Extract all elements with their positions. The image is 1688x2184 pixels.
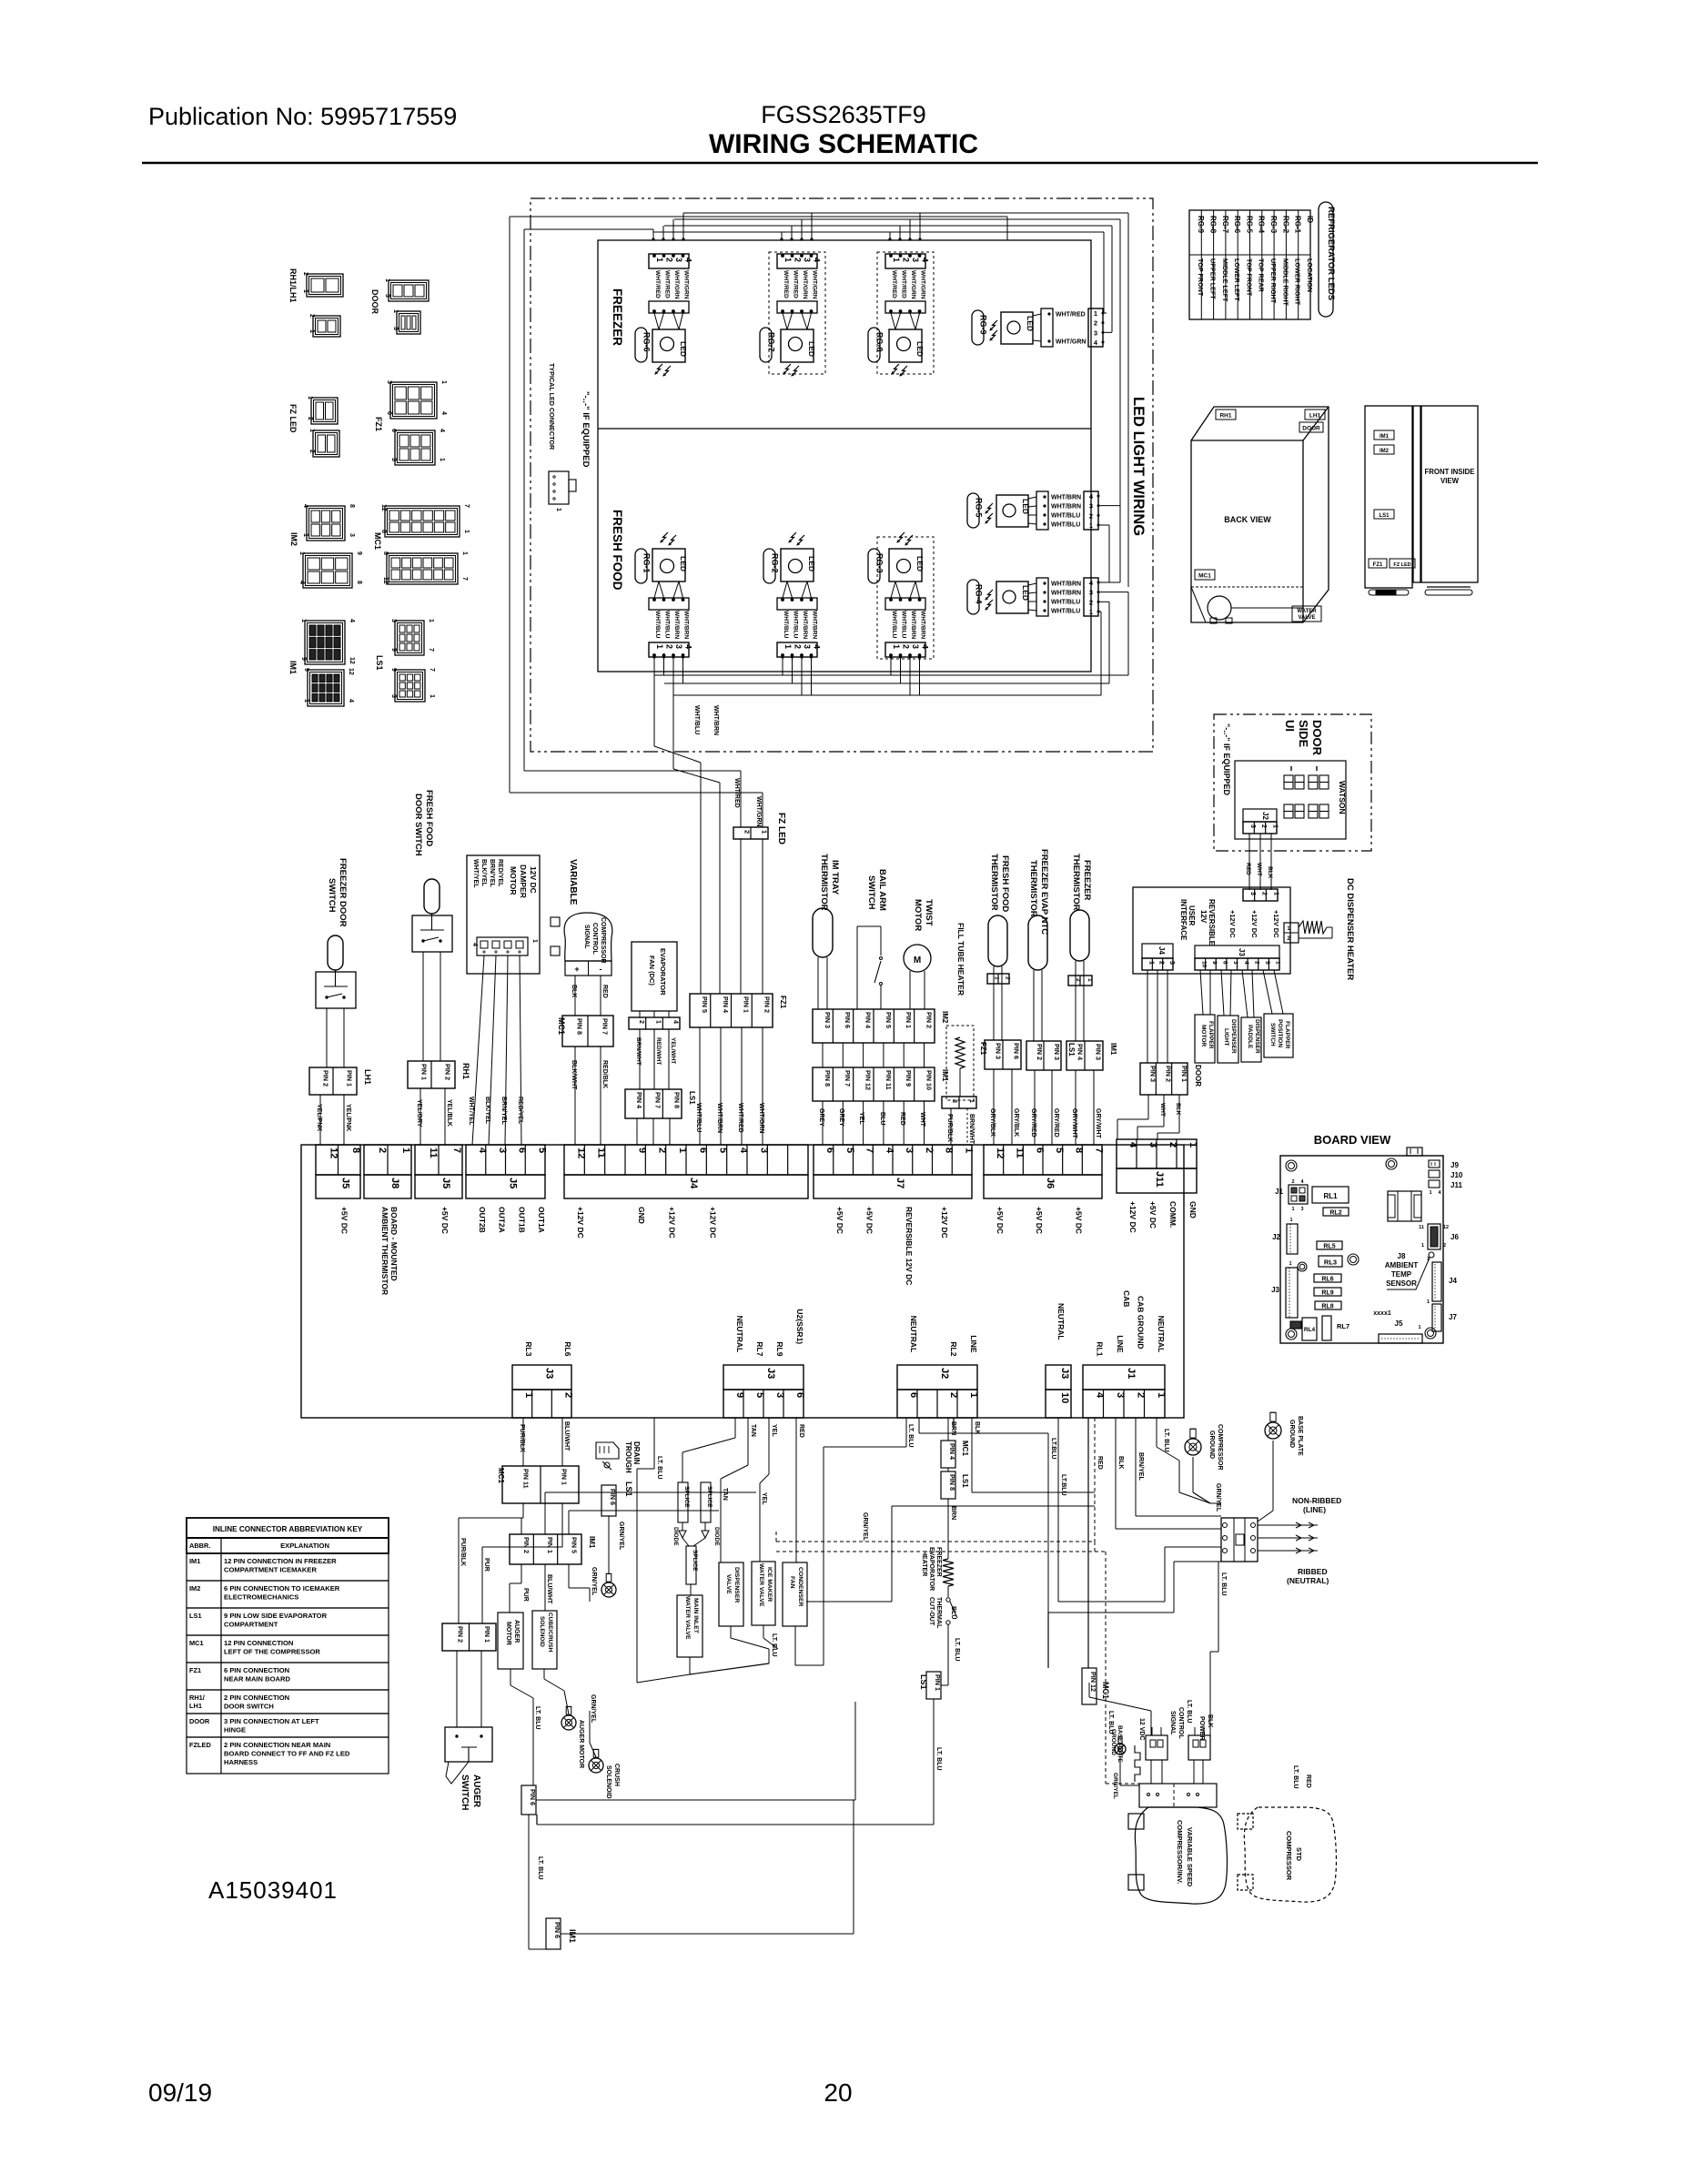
wire j3-10 ltblu: [1057, 1418, 1059, 1602]
svg-text:WHT/GRN: WHT/GRN: [1056, 339, 1086, 346]
connector MC1 pin8 pin7: [562, 1016, 613, 1046]
svg-text:COMPRESSOR: COMPRESSOR: [600, 917, 606, 964]
svg-text:RG-7: RG-7: [767, 332, 776, 352]
svg-text:2: 2: [665, 644, 674, 649]
svg-text:FREEZER EVAP NTC: FREEZER EVAP NTC: [1039, 849, 1049, 935]
svg-text:GRY/BLK: GRY/BLK: [989, 1108, 996, 1137]
svg-text:3: 3: [1168, 961, 1175, 965]
svg-text:ICE MAKER: ICE MAKER: [766, 1567, 773, 1602]
connector J4 label: [564, 1175, 808, 1198]
dashed wires to std compressor: [776, 1541, 1095, 1542]
wire grn/yel from pin5: [568, 1564, 570, 1588]
FZ LED connector: [733, 827, 768, 839]
svg-text:WHT/RED: WHT/RED: [664, 270, 671, 298]
svg-text:+12V DC: +12V DC: [708, 1207, 717, 1239]
svg-text:LED: LED: [915, 556, 925, 571]
svg-text:+5V DC: +5V DC: [996, 1207, 1005, 1234]
svg-text:6: 6: [1034, 1148, 1045, 1153]
LED module RG-6 pin connector: [649, 254, 689, 268]
refrigerator leds table: [1189, 210, 1310, 319]
svg-text:J3: J3: [1059, 1368, 1070, 1379]
connector MC1 PIN 12: [1082, 1668, 1097, 1704]
LED module RG-2 zaps: [789, 532, 796, 542]
svg-text:5: 5: [1264, 961, 1270, 965]
svg-text:OUT2B: OUT2B: [478, 1207, 487, 1233]
LED module RG-3 zaps: [897, 532, 905, 542]
wire down to pin6 bottom: [528, 1815, 530, 1929]
svg-text:SIGNAL: SIGNAL: [583, 925, 590, 949]
svg-text:LT.BLU: LT.BLU: [1060, 1474, 1066, 1496]
svg-text:PIN 3: PIN 3: [995, 1043, 1003, 1059]
svg-text:RED: RED: [899, 1112, 905, 1126]
svg-text:J2: J2: [1272, 1233, 1280, 1241]
svg-text:1: 1: [461, 551, 468, 555]
connector PIN 6 IM1 bottom: [546, 1918, 561, 1949]
svg-text:RL1: RL1: [1323, 1192, 1338, 1200]
svg-text:RL2: RL2: [949, 1341, 958, 1356]
board RL4: [1302, 1318, 1317, 1340]
svg-text:8: 8: [1074, 1148, 1085, 1153]
svg-text:PUR: PUR: [522, 1588, 529, 1602]
svg-text:GRY/RED: GRY/RED: [1053, 1108, 1059, 1137]
svg-text:8: 8: [382, 551, 389, 555]
svg-text:2: 2: [377, 1148, 388, 1153]
connector J8 label: [364, 1175, 411, 1198]
svg-text:RL2: RL2: [1329, 1210, 1341, 1217]
svg-text:J9: J9: [1450, 1161, 1459, 1169]
auger motor box: [498, 1613, 523, 1669]
svg-text:12: 12: [328, 1148, 339, 1158]
LED module RG-8 zaps: [892, 364, 899, 374]
svg-text:3: 3: [803, 644, 812, 649]
svg-text:7: 7: [429, 668, 435, 672]
LED module RG-4 LED box: [996, 581, 1028, 613]
svg-text:4: 4: [921, 258, 930, 262]
diode symbols: [679, 1522, 686, 1538]
connector IM2 view A: [307, 506, 345, 541]
svg-text:IM1: IM1: [189, 1557, 200, 1565]
door side ui dash-dot box: [1214, 714, 1371, 851]
svg-text:WHT/BRN: WHT/BRN: [683, 611, 690, 639]
svg-text:1: 1: [308, 329, 315, 333]
fresh food door switch: [424, 879, 440, 914]
typical led connector symbol: [549, 471, 569, 504]
connector MC1 view B: [387, 553, 458, 584]
svg-text:GND: GND: [637, 1207, 646, 1224]
LED module RG-5 strip: [1036, 491, 1048, 530]
svg-text:BLU/WHT: BLU/WHT: [546, 1574, 552, 1604]
wire rg4 pins: [1098, 581, 1120, 583]
svg-text:WATER VALVE: WATER VALVE: [684, 1596, 691, 1640]
svg-text:RG-9: RG-9: [1197, 216, 1205, 234]
svg-text:LS1: LS1: [189, 1612, 202, 1620]
svg-text:6: 6: [824, 1148, 835, 1153]
svg-text:4: 4: [440, 411, 447, 415]
svg-text:4: 4: [1438, 1190, 1441, 1196]
svg-text:"-..-" IF EQUIPPED: "-..-" IF EQUIPPED: [581, 391, 591, 468]
solenoid wire down: [543, 1669, 545, 1679]
svg-text:DISPENSER: DISPENSER: [733, 1567, 740, 1603]
LED module RG-9 pin box: [1088, 308, 1103, 347]
svg-text:NEUTRAL: NEUTRAL: [1157, 1316, 1166, 1353]
svg-text:+: +: [574, 965, 579, 974]
svg-text:2: 2: [1261, 892, 1268, 895]
svg-text:PIN 6: PIN 6: [609, 1489, 617, 1505]
svg-text:PIN 2: PIN 2: [925, 1012, 934, 1028]
svg-text:USER: USER: [1188, 905, 1196, 925]
svg-text:LED: LED: [1026, 316, 1035, 331]
svg-text:MIDDLE LEFT: MIDDLE LEFT: [1221, 258, 1229, 302]
svg-text:MOTOR: MOTOR: [505, 1622, 511, 1645]
svg-text:6: 6: [390, 429, 397, 432]
svg-text:YEL/WHT: YEL/WHT: [670, 1037, 676, 1064]
board RL3: [1319, 1256, 1342, 1267]
flapper position switch box: [1264, 1014, 1293, 1057]
svg-text:BRN/YEL: BRN/YEL: [489, 859, 495, 887]
svg-text:LH1: LH1: [363, 1069, 372, 1085]
svg-text:DOOR SWITCH: DOOR SWITCH: [413, 794, 423, 856]
svg-text:IM2: IM2: [1380, 449, 1390, 454]
bail arm switch symbol: [856, 926, 858, 1009]
svg-text:BLK: BLK: [974, 1421, 980, 1434]
svg-text:PUR/BLK: PUR/BLK: [946, 1114, 953, 1142]
svg-text:J7: J7: [1449, 1313, 1457, 1321]
svg-text:PIN 3: PIN 3: [1053, 1044, 1061, 1060]
svg-text:DOOR: DOOR: [1194, 1065, 1202, 1087]
svg-text:xxxx1: xxxx1: [1373, 1310, 1391, 1317]
svg-text:NON-RIBBED: NON-RIBBED: [1292, 1496, 1341, 1505]
svg-text:1: 1: [1275, 961, 1281, 965]
svg-text:+12V DC: +12V DC: [1228, 910, 1237, 938]
freezer door switch wires: [326, 1008, 328, 1067]
svg-text:1: 1: [1087, 978, 1093, 982]
svg-text:BLK: BLK: [1207, 1714, 1213, 1727]
bottom long wire: [561, 1933, 854, 1935]
svg-text:WHT/GRN: WHT/GRN: [758, 1103, 764, 1133]
svg-text:DRAIN: DRAIN: [632, 1441, 641, 1465]
svg-text:J7: J7: [895, 1178, 905, 1188]
svg-text:3: 3: [803, 258, 812, 262]
svg-text:RG-4: RG-4: [975, 584, 984, 604]
svg-text:1: 1: [1094, 309, 1097, 318]
svg-text:GRN/YEL: GRN/YEL: [1112, 1773, 1118, 1799]
svg-text:3: 3: [951, 1099, 957, 1103]
svg-text:1: 1: [968, 1099, 975, 1103]
svg-text:YEL: YEL: [858, 1112, 864, 1125]
wire runs below dashed box: [524, 770, 741, 772]
svg-text:FZ1: FZ1: [374, 417, 383, 431]
svg-text:3: 3: [1115, 1392, 1126, 1398]
svg-text:WHT/BLU: WHT/BLU: [693, 705, 700, 734]
inline connector abbreviation key table: [187, 1518, 389, 1538]
svg-text:9: 9: [356, 551, 362, 555]
svg-text:LED: LED: [915, 341, 925, 357]
svg-text:PIN 4: PIN 4: [864, 1012, 873, 1028]
svg-text:LT.BLU: LT.BLU: [1050, 1438, 1056, 1460]
svg-text:1: 1: [655, 644, 664, 649]
back view WATER VALVE tag: [1292, 606, 1321, 622]
svg-text:RED: RED: [1245, 863, 1251, 875]
board J6: [1428, 1224, 1440, 1249]
connector J5 pins: [316, 1145, 360, 1175]
LED module RG-8 strip: [885, 301, 925, 313]
svg-text:PIN 1: PIN 1: [743, 996, 751, 1013]
svg-text:REVERSIBLE: REVERSIBLE: [1208, 899, 1216, 946]
wire blk j2: [971, 1418, 973, 1492]
svg-text:3: 3: [674, 644, 683, 649]
svg-text:LT. BLU: LT. BLU: [1163, 1429, 1169, 1452]
svg-text:CUBE/CRUSH: CUBE/CRUSH: [547, 1613, 553, 1653]
back view dashed divider: [1191, 586, 1303, 588]
svg-text:WHT/BRN: WHT/BRN: [812, 611, 818, 639]
svg-text:WHT/RED: WHT/RED: [1056, 312, 1086, 318]
svg-text:PIN 1: PIN 1: [483, 1626, 491, 1643]
svg-text:3: 3: [1232, 961, 1238, 965]
svg-text:+12V DC: +12V DC: [940, 1207, 949, 1239]
board RL7: [1322, 1316, 1331, 1340]
svg-text:EVAPORATOR: EVAPORATOR: [928, 1547, 935, 1591]
svg-text:GRY/BLK: GRY/BLK: [1013, 1108, 1019, 1137]
svg-text:9 PIN LOW SIDE EVAPORATOR: 9 PIN LOW SIDE EVAPORATOR: [224, 1612, 328, 1620]
drain wire grn/yel: [608, 1516, 610, 1574]
svg-text:1: 1: [440, 380, 447, 384]
svg-text:IM TRAY: IM TRAY: [830, 860, 840, 895]
svg-text:MC1: MC1: [189, 1639, 204, 1647]
svg-text:RED/YEL: RED/YEL: [497, 859, 503, 887]
svg-text:2: 2: [562, 1392, 573, 1398]
board top connector: [1407, 1148, 1422, 1156]
svg-text:UPPER LEFT: UPPER LEFT: [1208, 258, 1217, 299]
variable speed compressor blob: [1135, 1807, 1227, 1904]
svg-text:HARNESS: HARNESS: [224, 1758, 258, 1766]
svg-text:IM2: IM2: [189, 1584, 200, 1592]
svg-text:SPLICE: SPLICE: [692, 1550, 698, 1572]
svg-text:1: 1: [303, 699, 309, 703]
connector RH1/LH1 view A: [307, 274, 343, 297]
svg-text:3: 3: [1089, 589, 1093, 597]
svg-text:FGSS2635TF9: FGSS2635TF9: [761, 101, 926, 128]
svg-text:WHT/BLU: WHT/BLU: [901, 611, 907, 639]
svg-text:RED/YEL: RED/YEL: [517, 1097, 523, 1125]
connector MC1 view A: [385, 506, 460, 537]
svg-text:6: 6: [1222, 961, 1228, 965]
compressor control signal blob: [564, 913, 612, 961]
evap fan pin row: [629, 1017, 680, 1029]
svg-text:J10: J10: [1450, 1171, 1463, 1179]
svg-text:+12V DC: +12V DC: [1128, 1201, 1137, 1233]
svg-text:SWITCH: SWITCH: [1269, 1023, 1276, 1046]
svg-text:1: 1: [400, 1148, 411, 1153]
svg-text:4: 4: [813, 258, 822, 262]
svg-text:RED: RED: [798, 1424, 804, 1438]
LED module RG-7 wires to LED: [783, 313, 787, 329]
ui top connector 3-2-1: [1243, 889, 1278, 901]
svg-text:8: 8: [349, 504, 355, 508]
svg-text:GRY/WHT: GRY/WHT: [1071, 1108, 1077, 1139]
svg-text:BLK/YEL: BLK/YEL: [480, 859, 487, 887]
svg-text:NEAR MAIN BOARD: NEAR MAIN BOARD: [224, 1675, 290, 1683]
svg-text:LED: LED: [679, 556, 688, 571]
svg-text:LOWER RIGHT: LOWER RIGHT: [1294, 258, 1302, 306]
svg-text:12: 12: [575, 1148, 586, 1158]
wire labels YEL/GRY YEL/BLK: [419, 1088, 421, 1145]
wire J3a pur/blk: [522, 1418, 524, 1466]
svg-text:-: -: [600, 965, 602, 974]
svg-text:REVERSIBLE 12V DC: REVERSIBLE 12V DC: [905, 1207, 914, 1285]
connector auger pin2 pin1: [442, 1623, 496, 1651]
svg-text:CONDENSER: CONDENSER: [797, 1567, 804, 1607]
svg-text:BLK: BLK: [1267, 866, 1273, 879]
svg-text:FREEZER: FREEZER: [611, 288, 624, 346]
svg-text:POWER: POWER: [1198, 1716, 1205, 1740]
svg-text:PIN 6: PIN 6: [844, 1012, 852, 1028]
back view DOOR tag: [1299, 422, 1323, 432]
svg-text:FREEZER: FREEZER: [1082, 860, 1092, 900]
svg-text:1: 1: [963, 1148, 974, 1153]
wire j1 red dashed: [1094, 1418, 1096, 1542]
svg-text:RL3: RL3: [524, 1341, 533, 1356]
base plate ground small: [1115, 1744, 1126, 1754]
svg-text:12 PIN CONNECTION IN FREEZER: 12 PIN CONNECTION IN FREEZER: [224, 1557, 337, 1565]
svg-text:LOCATION: LOCATION: [1306, 258, 1314, 292]
svg-text:1: 1: [302, 533, 308, 537]
svg-text:4: 4: [439, 429, 445, 432]
dispenser paddle box: [1241, 1017, 1261, 1062]
connector LS1 pin4 pin7 pin8: [625, 1089, 682, 1118]
connector IM1 view B: [308, 670, 344, 706]
svg-text:6: 6: [697, 1148, 708, 1153]
svg-text:OUT1B: OUT1B: [517, 1207, 526, 1233]
condenser fan wires: [794, 1626, 796, 1665]
connector DOOR view B: [397, 311, 420, 334]
svg-text:WHT/RED: WHT/RED: [793, 270, 799, 298]
connector J2 label: [897, 1365, 977, 1390]
wire j1 neutral ltblu: [1156, 1418, 1157, 1447]
svg-text:SOLENOID: SOLENOID: [605, 1765, 612, 1799]
svg-text:RED/BLK: RED/BLK: [601, 1060, 608, 1088]
svg-text:LED: LED: [679, 341, 688, 357]
LED module RG-7 pin connector: [777, 254, 817, 268]
svg-text:1: 1: [1418, 1325, 1420, 1330]
svg-text:WHT/YEL: WHT/YEL: [472, 859, 479, 888]
svg-text:PIN 1: PIN 1: [1180, 1066, 1188, 1082]
LED module RG-1 zaps: [661, 532, 668, 542]
brn ls1 wire: [953, 1418, 955, 1429]
svg-text:3: 3: [774, 1392, 785, 1398]
svg-text:RL4: RL4: [1304, 1327, 1316, 1333]
svg-text:LT. BLU: LT. BLU: [534, 1706, 541, 1730]
svg-text:1: 1: [1289, 1261, 1291, 1267]
svg-text:3: 3: [392, 327, 399, 330]
svg-text:RH1: RH1: [1219, 413, 1231, 420]
svg-text:+5V DC: +5V DC: [1148, 1201, 1157, 1228]
back view compressor: [1208, 596, 1231, 620]
wire fresh food module stubs: [782, 657, 783, 675]
svg-text:LT. BLU: LT. BLU: [1292, 1765, 1299, 1789]
svg-text:A15039401: A15039401: [208, 1876, 338, 1904]
svg-text:1: 1: [523, 1392, 534, 1398]
connector J5 pins: [415, 1145, 462, 1175]
svg-text:IM2: IM2: [941, 1011, 949, 1024]
svg-text:3: 3: [904, 1148, 915, 1153]
svg-text:IM1: IM1: [1109, 1043, 1117, 1056]
compressor signal wires: [574, 976, 576, 1016]
svg-text:WHT: WHT: [919, 1112, 925, 1127]
cube/crush solenoid box: [532, 1611, 557, 1669]
svg-text:1: 1: [307, 396, 313, 399]
connector J1 label: [1083, 1365, 1165, 1390]
svg-text:4: 4: [1094, 339, 1098, 347]
svg-text:2: 2: [307, 417, 313, 420]
svg-text:INLINE CONNECTOR ABBREVIATION: INLINE CONNECTOR ABBREVIATION KEY: [213, 1525, 363, 1533]
door ui wires down: [1248, 834, 1250, 890]
svg-text:AMBIENT: AMBIENT: [1385, 1261, 1419, 1269]
divider freezer/fresh food: [598, 428, 1091, 430]
svg-text:WHT/RED: WHT/RED: [783, 270, 789, 298]
svg-text:9: 9: [303, 668, 309, 672]
LED module RG-3 pin connector: [885, 642, 925, 657]
svg-text:8: 8: [356, 581, 362, 584]
svg-text:BLK: BLK: [1175, 1103, 1181, 1116]
svg-text:RL7: RL7: [755, 1341, 764, 1356]
svg-text:WHT/BLU: WHT/BLU: [783, 611, 789, 639]
svg-text:2: 2: [308, 314, 315, 318]
wire bus bottom: [1127, 592, 1129, 675]
svg-text:2: 2: [1094, 319, 1097, 328]
LED module RG-7 stadium label: [760, 328, 772, 362]
board transformer: [1388, 1191, 1421, 1221]
svg-text:MC1: MC1: [557, 1017, 566, 1035]
svg-text:9: 9: [300, 657, 307, 661]
connector J5 label: [415, 1175, 462, 1198]
svg-text:BLK: BLK: [571, 985, 577, 997]
svg-text:SENSOR: SENSOR: [1386, 1279, 1417, 1288]
LED module RG-6 wires to LED: [654, 313, 659, 329]
wire J3b red: [795, 1418, 797, 1562]
svg-text:2: 2: [1004, 976, 1010, 980]
LED module RG-3 wires to LED: [891, 581, 895, 598]
svg-text:THERMAL: THERMAL: [935, 1597, 942, 1629]
svg-text:RG-8: RG-8: [875, 332, 884, 352]
svg-text:RG-2: RG-2: [771, 553, 780, 573]
connector J1 pins: [1083, 1390, 1165, 1418]
svg-text:5: 5: [844, 1148, 855, 1153]
svg-text:4: 4: [1094, 1392, 1105, 1399]
connector IM2 band: [813, 1009, 935, 1043]
svg-text:1: 1: [439, 458, 445, 461]
svg-text:J2: J2: [939, 1368, 950, 1379]
fiv base left: [1369, 590, 1409, 595]
freezer evaporator heater: [943, 1559, 954, 1586]
svg-text:4: 4: [1089, 579, 1094, 587]
svg-text:6: 6: [908, 1392, 919, 1398]
svg-text:WHT/GRN: WHT/GRN: [755, 796, 762, 826]
svg-text:NEUTRAL: NEUTRAL: [909, 1316, 918, 1353]
svg-text:(NEUTRAL): (NEUTRAL): [1287, 1576, 1329, 1585]
svg-text:7: 7: [461, 577, 468, 581]
ls1 pin1 wire down: [933, 1699, 935, 1825]
svg-text:3: 3: [390, 619, 397, 622]
svg-text:7: 7: [451, 1148, 462, 1153]
wire bus right verticals: [1103, 232, 1105, 313]
svg-text:2: 2: [657, 1148, 668, 1153]
drain trough symbol: [596, 1442, 619, 1459]
LED module RG-8 wires to LED: [891, 313, 895, 329]
svg-text:COMM.: COMM.: [1168, 1201, 1178, 1228]
svg-text:1: 1: [384, 278, 390, 282]
svg-text:RG-1: RG-1: [1294, 216, 1302, 234]
svg-text:+5V DC: +5V DC: [340, 1207, 349, 1234]
